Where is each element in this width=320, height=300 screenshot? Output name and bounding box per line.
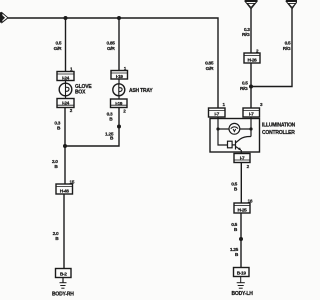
svg-text:ILLUMINATION: ILLUMINATION — [262, 123, 296, 129]
wire: internal rheostat row — [218, 128, 251, 130]
svg-text:H-26: H-26 — [248, 57, 258, 63]
wire: H-25 down to splice — [240, 213, 242, 239]
wire: ash tray feed drop — [118, 18, 120, 71]
svg-text:BOX: BOX — [75, 90, 86, 96]
label GLOVE BOX — [75, 84, 92, 95]
svg-text:B-2: B-2 — [60, 271, 67, 277]
svg-text:G/R: G/R — [107, 46, 115, 52]
svg-text:I-7: I-7 — [240, 156, 245, 162]
junction: ground wire splice — [239, 237, 243, 241]
glove box lamp — [59, 81, 72, 99]
wire: H-26 down to controller pin 3 — [250, 63, 252, 108]
svg-text:0.5: 0.5 — [242, 81, 248, 87]
junction: ash tray wire size splice — [117, 125, 121, 129]
junction: glove box tap — [64, 16, 68, 20]
svg-text:G/R: G/R — [54, 46, 62, 52]
wire: feed bus from left connector to illumination controller pin 1 — [8, 18, 218, 108]
svg-text:0.5: 0.5 — [56, 41, 62, 47]
svg-text:I-24: I-24 — [62, 75, 70, 81]
svg-text:I-7: I-7 — [214, 112, 219, 118]
svg-text:G/R: G/R — [206, 66, 214, 72]
junction: ground splice — [63, 144, 67, 148]
resistor (base) — [228, 141, 233, 148]
wire: glove box feed drop — [65, 18, 67, 72]
wire: controller pin 2 to H-25 — [240, 163, 242, 204]
connector I-19 (top half) — [111, 71, 128, 81]
connector H-25 — [234, 203, 250, 213]
wire: transistor emitter to pin 2 — [240, 150, 242, 154]
svg-text:R/G: R/G — [240, 86, 248, 92]
svg-text:CONTROLLER: CONTROLLER — [262, 130, 295, 136]
svg-text:I-7: I-7 — [249, 112, 254, 118]
connector H-46 — [56, 184, 73, 194]
junction: internal right node — [249, 127, 252, 130]
rheostat (dimmer) — [229, 123, 240, 134]
wire: controller internal left branch — [218, 117, 228, 145]
connector H-26 — [244, 53, 260, 63]
wire: controller internal right branch — [250, 117, 252, 137]
junction: R/G merge — [249, 85, 253, 89]
connector I-19 (bottom half) — [111, 99, 128, 108]
wire: ash tray lamp down to splice — [118, 108, 120, 127]
transistor Q (output) — [236, 136, 252, 150]
off-page connector triangle (right feed) — [286, 0, 297, 9]
ash tray lamp — [113, 79, 125, 99]
connector I-24 (bottom half) — [57, 99, 74, 108]
label ILLUMINATION CONTROLLER — [262, 123, 296, 136]
ground symbol (BODY-LH) — [237, 277, 245, 289]
connector I-7 (pin 1) — [209, 108, 226, 118]
connector I-7 (pin 2) — [234, 154, 250, 163]
connector I-7 (pin 3) — [243, 108, 260, 118]
svg-text:BODY-LH: BODY-LH — [232, 291, 254, 297]
svg-text:ASH TRAY: ASH TRAY — [129, 88, 153, 94]
wire: triangle to H-26 — [250, 9, 252, 53]
svg-text:R/G: R/G — [283, 46, 291, 52]
wire: right feed to R/G merge junction — [251, 9, 292, 87]
svg-text:B-19: B-19 — [237, 270, 247, 276]
svg-text:0.5: 0.5 — [231, 181, 237, 187]
wire: glove box lamp to ground splice — [64, 108, 66, 147]
svg-text:BODY-RH: BODY-RH — [52, 291, 74, 297]
svg-text:2.0: 2.0 — [52, 159, 58, 165]
connector I-24 (top half) — [57, 72, 74, 82]
illumination controller box — [210, 119, 260, 153]
svg-text:H-25: H-25 — [238, 207, 248, 213]
svg-text:0.85: 0.85 — [106, 41, 115, 47]
wire: splice to B-19 — [240, 239, 242, 268]
svg-text:2.0: 2.0 — [53, 231, 59, 237]
off-page connector triangle (H-26 feed) — [245, 0, 258, 9]
ground point B-2 — [56, 269, 72, 278]
ground point B-19 — [234, 268, 250, 277]
wire: resistor to transistor base — [232, 144, 235, 146]
wire: ash splice over to glove ground splice — [65, 127, 119, 147]
wire: splice down to H-46 — [64, 146, 66, 184]
svg-text:H-46: H-46 — [60, 188, 70, 194]
ground symbol (BODY-RH) — [60, 278, 67, 289]
junction: ash tray tap — [117, 16, 121, 20]
wire: H-46 to B-2 ground — [63, 194, 65, 269]
svg-text:0.85: 0.85 — [205, 61, 214, 67]
svg-text:R/G: R/G — [242, 32, 250, 38]
junction: internal left node — [216, 127, 219, 130]
svg-text:I-19: I-19 — [115, 101, 123, 107]
svg-text:I-24: I-24 — [62, 101, 70, 107]
svg-text:0.5: 0.5 — [285, 41, 291, 47]
off-page connector arrow (left feed) — [0, 12, 8, 22]
